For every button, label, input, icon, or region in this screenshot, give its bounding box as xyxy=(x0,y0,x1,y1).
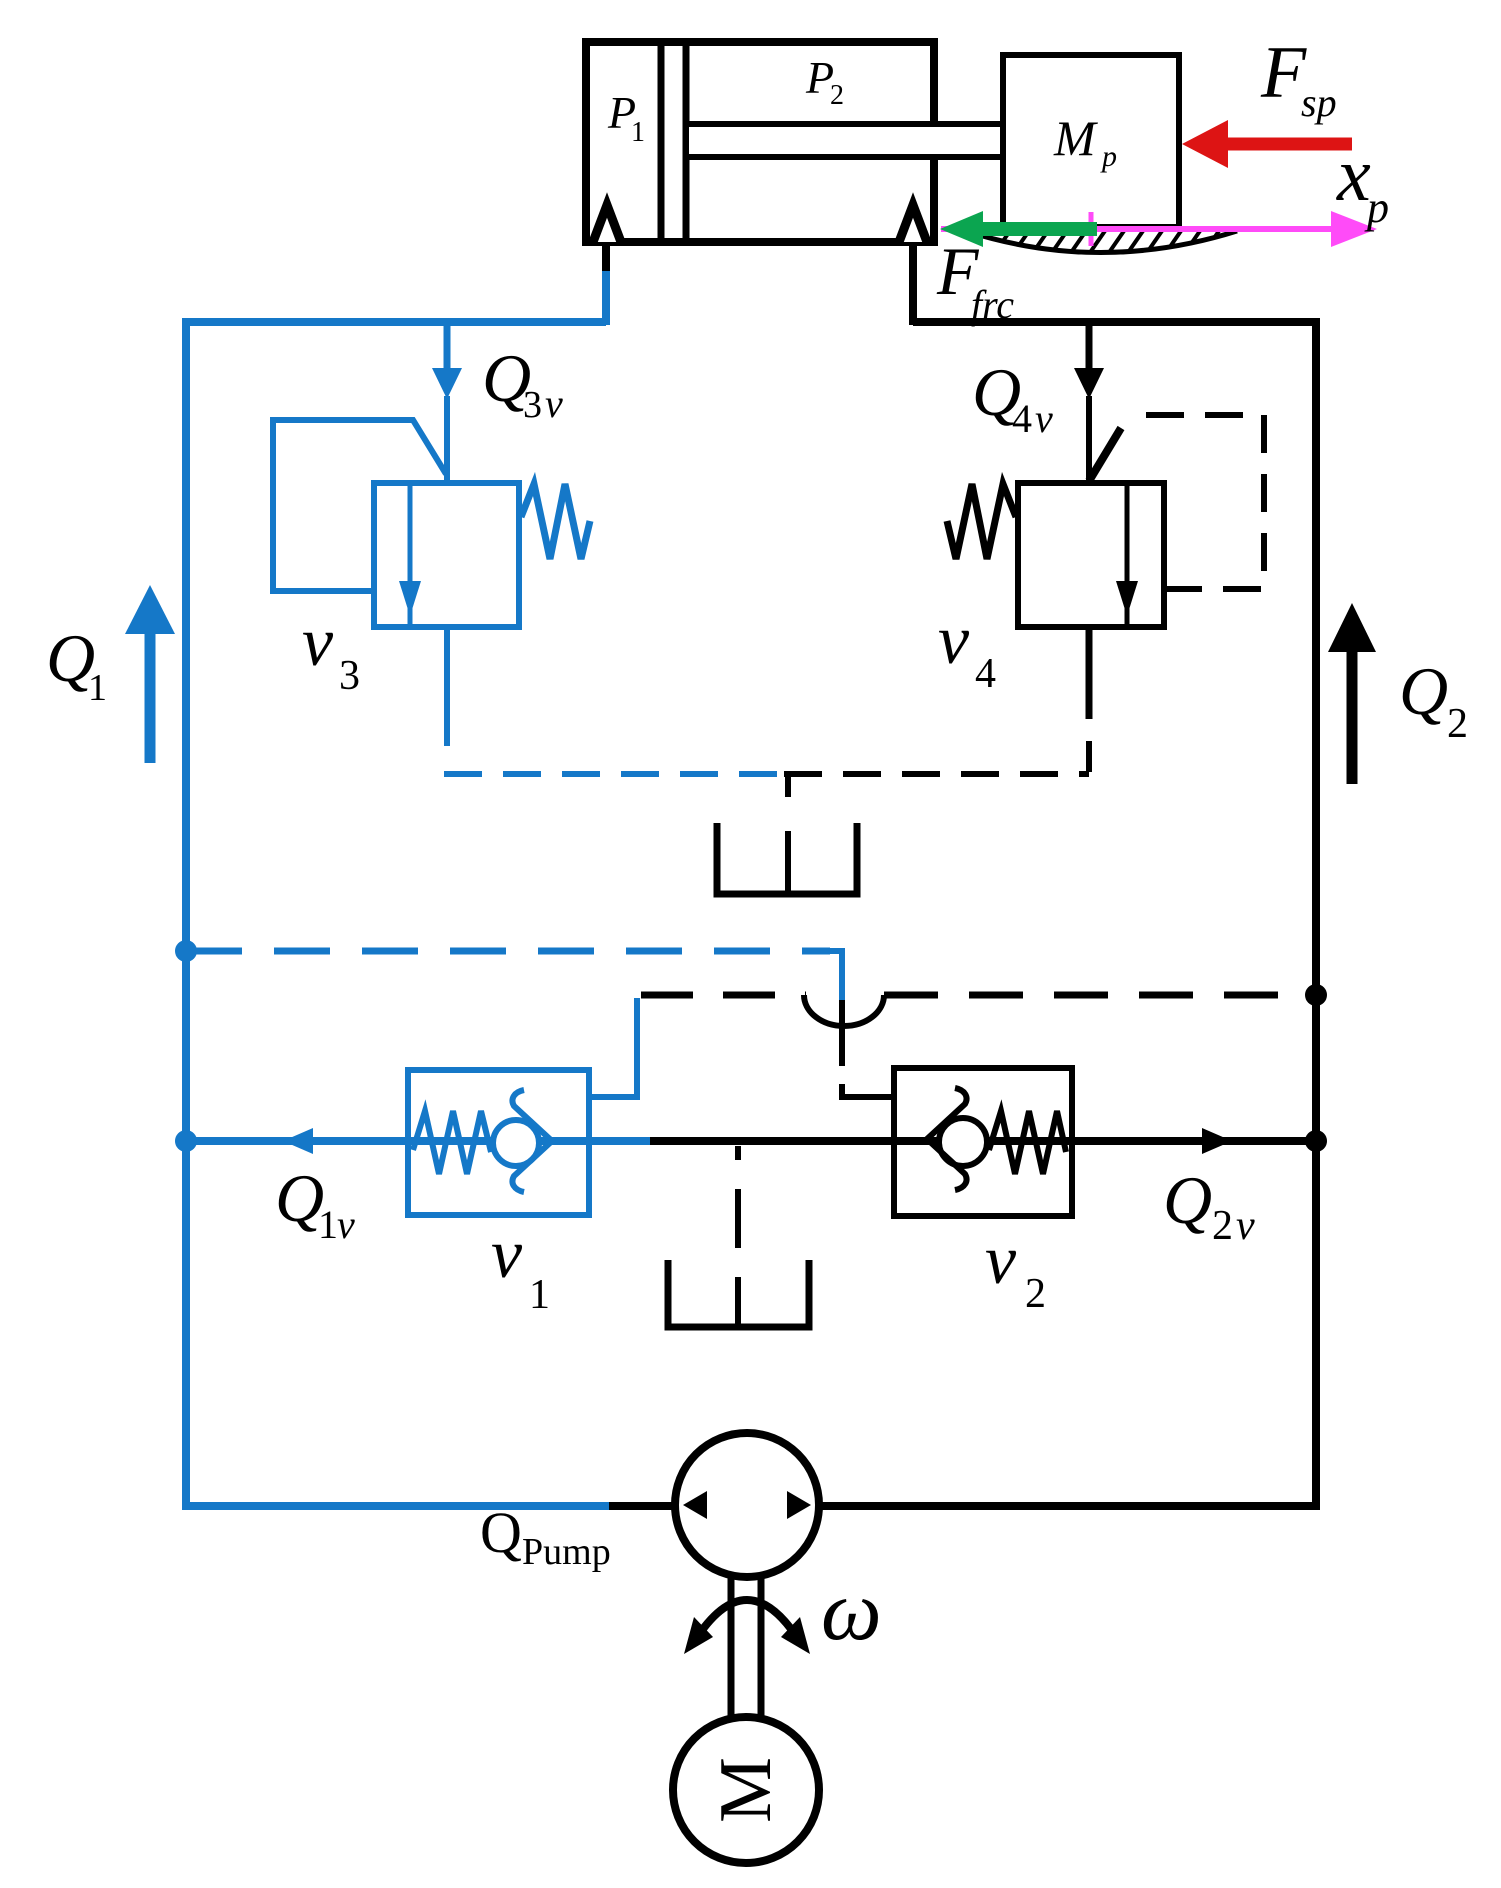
arrow x_p (magenta) xyxy=(941,211,1377,247)
svg-text:4: 4 xyxy=(975,651,996,697)
pilot line blue dashed from left main to v2 xyxy=(175,940,842,1000)
label F_sp xyxy=(1260,32,1337,125)
label Q2 xyxy=(1399,653,1468,747)
svg-text:M: M xyxy=(1053,110,1098,166)
cylinder body xyxy=(586,42,934,242)
svg-text:v: v xyxy=(545,381,563,426)
svg-text:sp: sp xyxy=(1301,80,1337,125)
svg-text:v: v xyxy=(302,604,334,681)
label Q2v xyxy=(1163,1162,1255,1249)
wire Q3v branch (blue) with arrow xyxy=(432,322,462,486)
valve v2 body (black pilot-operated check valve) xyxy=(894,1068,1072,1216)
valve v3 spring (blue) xyxy=(521,484,590,559)
label Q1 xyxy=(46,620,107,709)
svg-text:2: 2 xyxy=(1212,1203,1233,1249)
svg-text:v: v xyxy=(985,1222,1017,1299)
svg-text:1: 1 xyxy=(631,117,645,148)
valve v3 body (blue counterbalance valve) xyxy=(374,483,519,627)
svg-text:M: M xyxy=(705,1757,787,1823)
valve v4 pilot dashed rectangle xyxy=(1146,415,1264,589)
cylinder port chevron right xyxy=(899,205,927,242)
label v4 xyxy=(938,602,996,697)
wire main line right of center (black) with arrow Q2v xyxy=(650,1130,1327,1152)
wire port P1 stub (black upper part then blue) xyxy=(602,242,610,325)
svg-text:Q: Q xyxy=(275,1160,324,1236)
svg-text:ω: ω xyxy=(821,1562,882,1658)
arrow F_sp (red) xyxy=(1182,120,1352,168)
svg-text:v: v xyxy=(1035,396,1053,441)
svg-text:Q: Q xyxy=(1163,1162,1212,1238)
valve v3 pilot loop (blue solid) xyxy=(273,420,446,591)
wire pump left black segment xyxy=(609,1502,678,1510)
wire v4 drain dashed (black) xyxy=(784,771,1089,891)
label Q_Pump xyxy=(480,1500,611,1573)
svg-text:2: 2 xyxy=(1447,701,1468,747)
wire port P2 stub (black) xyxy=(909,242,917,325)
pilot drop to v2 (black) xyxy=(842,1000,894,1097)
svg-text:1: 1 xyxy=(318,1202,338,1247)
label P2 xyxy=(805,52,844,111)
svg-text:2: 2 xyxy=(830,80,844,111)
pilot line black dashed from right main to v1 (with hop) xyxy=(641,984,1327,1026)
tank T1 xyxy=(717,823,857,894)
arrow Q2 (black up) xyxy=(1328,603,1376,784)
svg-text:p: p xyxy=(1100,140,1117,173)
mass Mp block xyxy=(1003,55,1179,227)
label Q4v xyxy=(972,354,1053,441)
ground hatch under mass xyxy=(966,228,1237,254)
label v2 xyxy=(985,1222,1046,1317)
motor circle with rotated M xyxy=(673,1717,819,1863)
svg-text:3: 3 xyxy=(523,384,542,426)
label Mp xyxy=(1053,110,1117,173)
label v1 xyxy=(491,1216,550,1318)
svg-text:F: F xyxy=(1260,32,1307,114)
pump circle with outward triangles xyxy=(675,1433,819,1577)
valve v4 body (black counterbalance valve) xyxy=(1018,428,1164,627)
svg-text:frc: frc xyxy=(971,282,1014,327)
arrow Q1 (blue up) xyxy=(125,585,175,763)
valve v1 body (blue pilot-operated check valve) xyxy=(408,1070,589,1215)
label Q3v xyxy=(482,340,563,426)
svg-text:Q: Q xyxy=(1399,653,1448,729)
piston rod xyxy=(686,124,1003,157)
rotation arrow omega over shaft xyxy=(684,1600,810,1654)
wire v4 outlet (black) xyxy=(1086,627,1093,772)
svg-text:p: p xyxy=(1364,183,1389,232)
svg-text:1: 1 xyxy=(529,1272,550,1318)
svg-text:v: v xyxy=(938,602,970,679)
wire Q1 left main (blue): top horizontal, left vertical, bottom horizontal xyxy=(186,322,611,1506)
tank T2 with dashed pipe xyxy=(668,1146,809,1327)
pilot riser from v1 (blue solid) xyxy=(589,998,637,1097)
svg-text:v: v xyxy=(1236,1203,1255,1249)
svg-text:Q: Q xyxy=(480,1500,522,1565)
label P1 xyxy=(607,87,645,148)
arrowhead Q2v on main line xyxy=(1202,1128,1232,1154)
arrow F_frc (green) xyxy=(940,211,1097,247)
pump shaft double line xyxy=(731,1577,761,1720)
svg-text:v: v xyxy=(491,1216,523,1293)
wire main line left of center (blue) with arrow Q1v xyxy=(175,1128,652,1154)
svg-text:4: 4 xyxy=(1012,396,1032,441)
svg-text:v: v xyxy=(337,1202,355,1247)
wire Q2 right main (black): top horizontal, right vertical, bottom horizontal xyxy=(820,322,1316,1506)
svg-text:3: 3 xyxy=(339,653,360,699)
label v3 xyxy=(302,604,360,699)
label x_p xyxy=(1336,133,1389,232)
valve v4 spring (black) xyxy=(947,484,1016,559)
label Q1v xyxy=(275,1160,355,1247)
valve v1 spring, ball and seat (blue) xyxy=(413,1090,552,1192)
svg-text:Pump: Pump xyxy=(522,1531,611,1573)
wire Q4v branch (black) with arrow xyxy=(1074,322,1104,486)
label omega xyxy=(821,1562,882,1658)
wire v3 outlet (blue) xyxy=(444,627,450,746)
wire v3 drain dashed (blue) xyxy=(444,771,778,777)
cylinder port chevron left xyxy=(593,205,621,242)
svg-text:1: 1 xyxy=(88,667,107,709)
svg-text:x: x xyxy=(1336,133,1371,217)
svg-text:2: 2 xyxy=(1025,1271,1046,1317)
label F_frc xyxy=(936,233,1014,327)
